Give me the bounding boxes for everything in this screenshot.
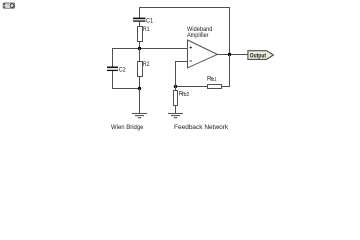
wire Rfb1 to node D (176, 86, 208, 88)
wire Rfb2 to ground (175, 106, 177, 114)
resistor Rfb1 (207, 76, 222, 89)
node C junction dot (output node) (228, 53, 231, 56)
wire R2 to node B (139, 77, 141, 89)
svg-text:fb2: fb2 (182, 92, 189, 98)
resistor R2 (138, 61, 150, 77)
wire C1 to R1 (139, 22, 141, 27)
node D junction dot (174, 85, 177, 88)
ground (feedback network) (168, 114, 183, 118)
wire output node down to Rfb1 (222, 55, 230, 87)
wire node D up to op-amp - input (176, 62, 188, 87)
node A junction dot (138, 47, 141, 50)
wire node A to R2 (139, 49, 141, 62)
capacitor C2 (107, 66, 126, 73)
svg-text:R1: R1 (143, 26, 150, 33)
svg-text:Amplifier: Amplifier (187, 32, 209, 39)
wire node A left and down to C2 (113, 49, 140, 67)
resistor R1 (138, 26, 150, 42)
resistor Rfb2 (174, 90, 190, 105)
wire node B to ground (139, 89, 141, 114)
toolbar icon top-left (3, 3, 14, 8)
svg-text:R2: R2 (143, 61, 150, 68)
op-amp U1 (188, 40, 218, 68)
svg-text:C2: C2 (119, 66, 126, 73)
wire node D to Rfb2 (175, 87, 177, 91)
svg-text:C1: C1 (146, 17, 153, 24)
capacitor C1 (133, 17, 153, 24)
wire C2 down and right along bottom rail (113, 71, 140, 89)
output flag (248, 51, 274, 60)
ground (Wien bridge) (132, 114, 147, 118)
svg-text:Wien Bridge: Wien Bridge (111, 124, 144, 131)
node B junction dot (138, 87, 141, 90)
svg-text:Feedback Network: Feedback Network (174, 124, 229, 131)
wire op-amp output to flag (217, 54, 248, 56)
wire top rail: C1 top across to output column (140, 8, 230, 55)
svg-text:fb1: fb1 (211, 77, 217, 83)
wire node A to op-amp + input (140, 48, 188, 50)
wire R1 to node A (139, 42, 141, 49)
svg-text:Output: Output (250, 52, 266, 59)
